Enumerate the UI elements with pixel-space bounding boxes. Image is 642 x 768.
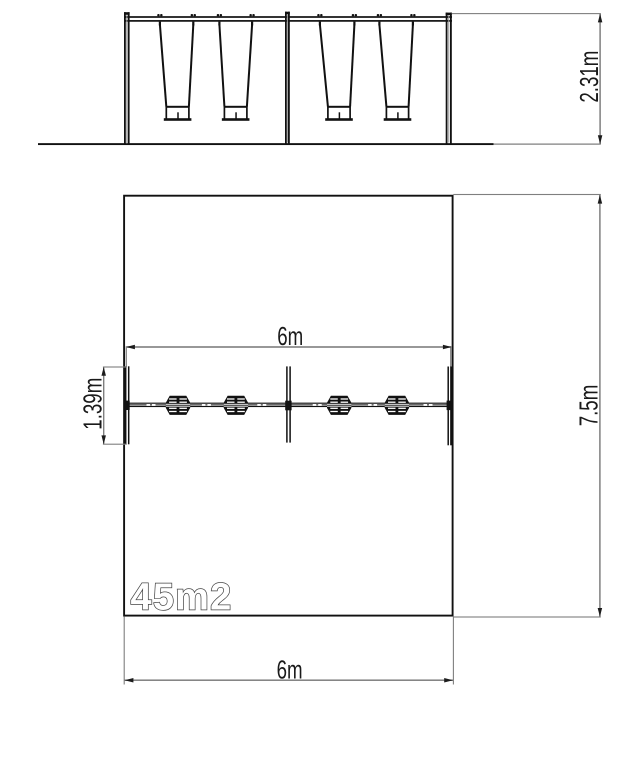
bottom 6m arrow right: [444, 678, 453, 683]
bottom 6m extension line left: [124, 617, 125, 685]
swing seat 1 (plan, hatched): [166, 396, 190, 415]
2.31m extension line (top): [452, 13, 601, 14]
swing 4 hangers on beam: [377, 14, 416, 25]
right post (elevation): [446, 13, 452, 144]
middle post (elevation): [285, 12, 290, 144]
1.39m dimension line: [103, 367, 104, 444]
svg-text:45m2: 45m2: [131, 577, 233, 619]
swing 3 right chain: [350, 25, 354, 107]
bottom 6m extension line right: [453, 617, 454, 685]
swing 2 hangers on beam: [217, 14, 255, 25]
swing seat 4 (plan, hatched): [385, 396, 409, 415]
swing 2 right chain: [247, 25, 252, 107]
2.31m arrow up: [598, 14, 603, 23]
left A-frame legs (plan): [124, 366, 130, 444]
7.5m top extension line: [453, 194, 601, 195]
ground extension line (gray, to dimension): [494, 144, 601, 145]
7.5m arrow up: [598, 195, 603, 204]
2.31m arrow down: [598, 135, 603, 144]
swing 1 hangers on beam: [157, 14, 196, 25]
svg-text:2.31m: 2.31m: [574, 51, 604, 103]
swing 2 seat (elevation): [222, 106, 250, 121]
middle beam bracket (plan): [285, 401, 291, 411]
top 6m extension tick left: [126, 346, 127, 367]
swing 4 right chain: [409, 25, 413, 107]
svg-text:7.5m: 7.5m: [573, 385, 603, 427]
top 6m dimension line: [127, 346, 451, 348]
swing beam (plan) centerline dash-dot: [128, 404, 450, 406]
1.39m arrow up: [101, 367, 106, 376]
swing beam (plan) bottom line: [126, 406, 452, 407]
swing seat 3 (plan, hatched): [327, 396, 351, 415]
left post (elevation): [124, 12, 130, 144]
ground line: [38, 143, 494, 145]
swing 3 left chain: [320, 25, 328, 107]
1.39m bottom extension line: [103, 444, 127, 445]
area rectangle 6m x 7.5m: [124, 196, 453, 616]
swing 4 seat (elevation): [384, 106, 412, 121]
7.5m bottom extension line: [453, 616, 601, 617]
swing seat 2 (plan, hatched): [224, 396, 248, 415]
right A-frame legs (plan): [447, 367, 452, 446]
top 6m extension tick right: [450, 346, 451, 367]
top beam: [124, 16, 452, 18]
1.39m top extension line: [103, 366, 127, 367]
middle A-frame legs (plan): [286, 366, 291, 442]
swing 2 left chain: [219, 25, 224, 107]
bottom 6m arrow left: [125, 678, 134, 683]
bottom 6m dimension line: [124, 679, 453, 681]
svg-text:6m: 6m: [277, 654, 303, 684]
right beam bracket (plan): [447, 401, 453, 411]
swing 4 left chain: [379, 25, 386, 107]
swing beam (plan) top line: [126, 403, 452, 404]
swing 1 right chain: [189, 25, 193, 107]
left beam bracket (plan): [124, 401, 130, 410]
7.5m arrow down: [598, 608, 603, 617]
swing 1 left chain: [160, 25, 166, 107]
top 6m arrow right: [443, 345, 452, 350]
2.31m dimension line: [599, 14, 601, 145]
top 6m arrow left: [126, 345, 135, 350]
swing 1 seat (elevation): [164, 106, 192, 121]
1.39m arrow down: [101, 435, 106, 444]
swing 3 seat (elevation): [325, 106, 353, 121]
svg-text:1.39m: 1.39m: [77, 378, 107, 430]
7.5m dimension line: [599, 195, 601, 617]
swing 3 hangers on beam: [317, 14, 357, 25]
svg-text:6m: 6m: [277, 321, 303, 351]
